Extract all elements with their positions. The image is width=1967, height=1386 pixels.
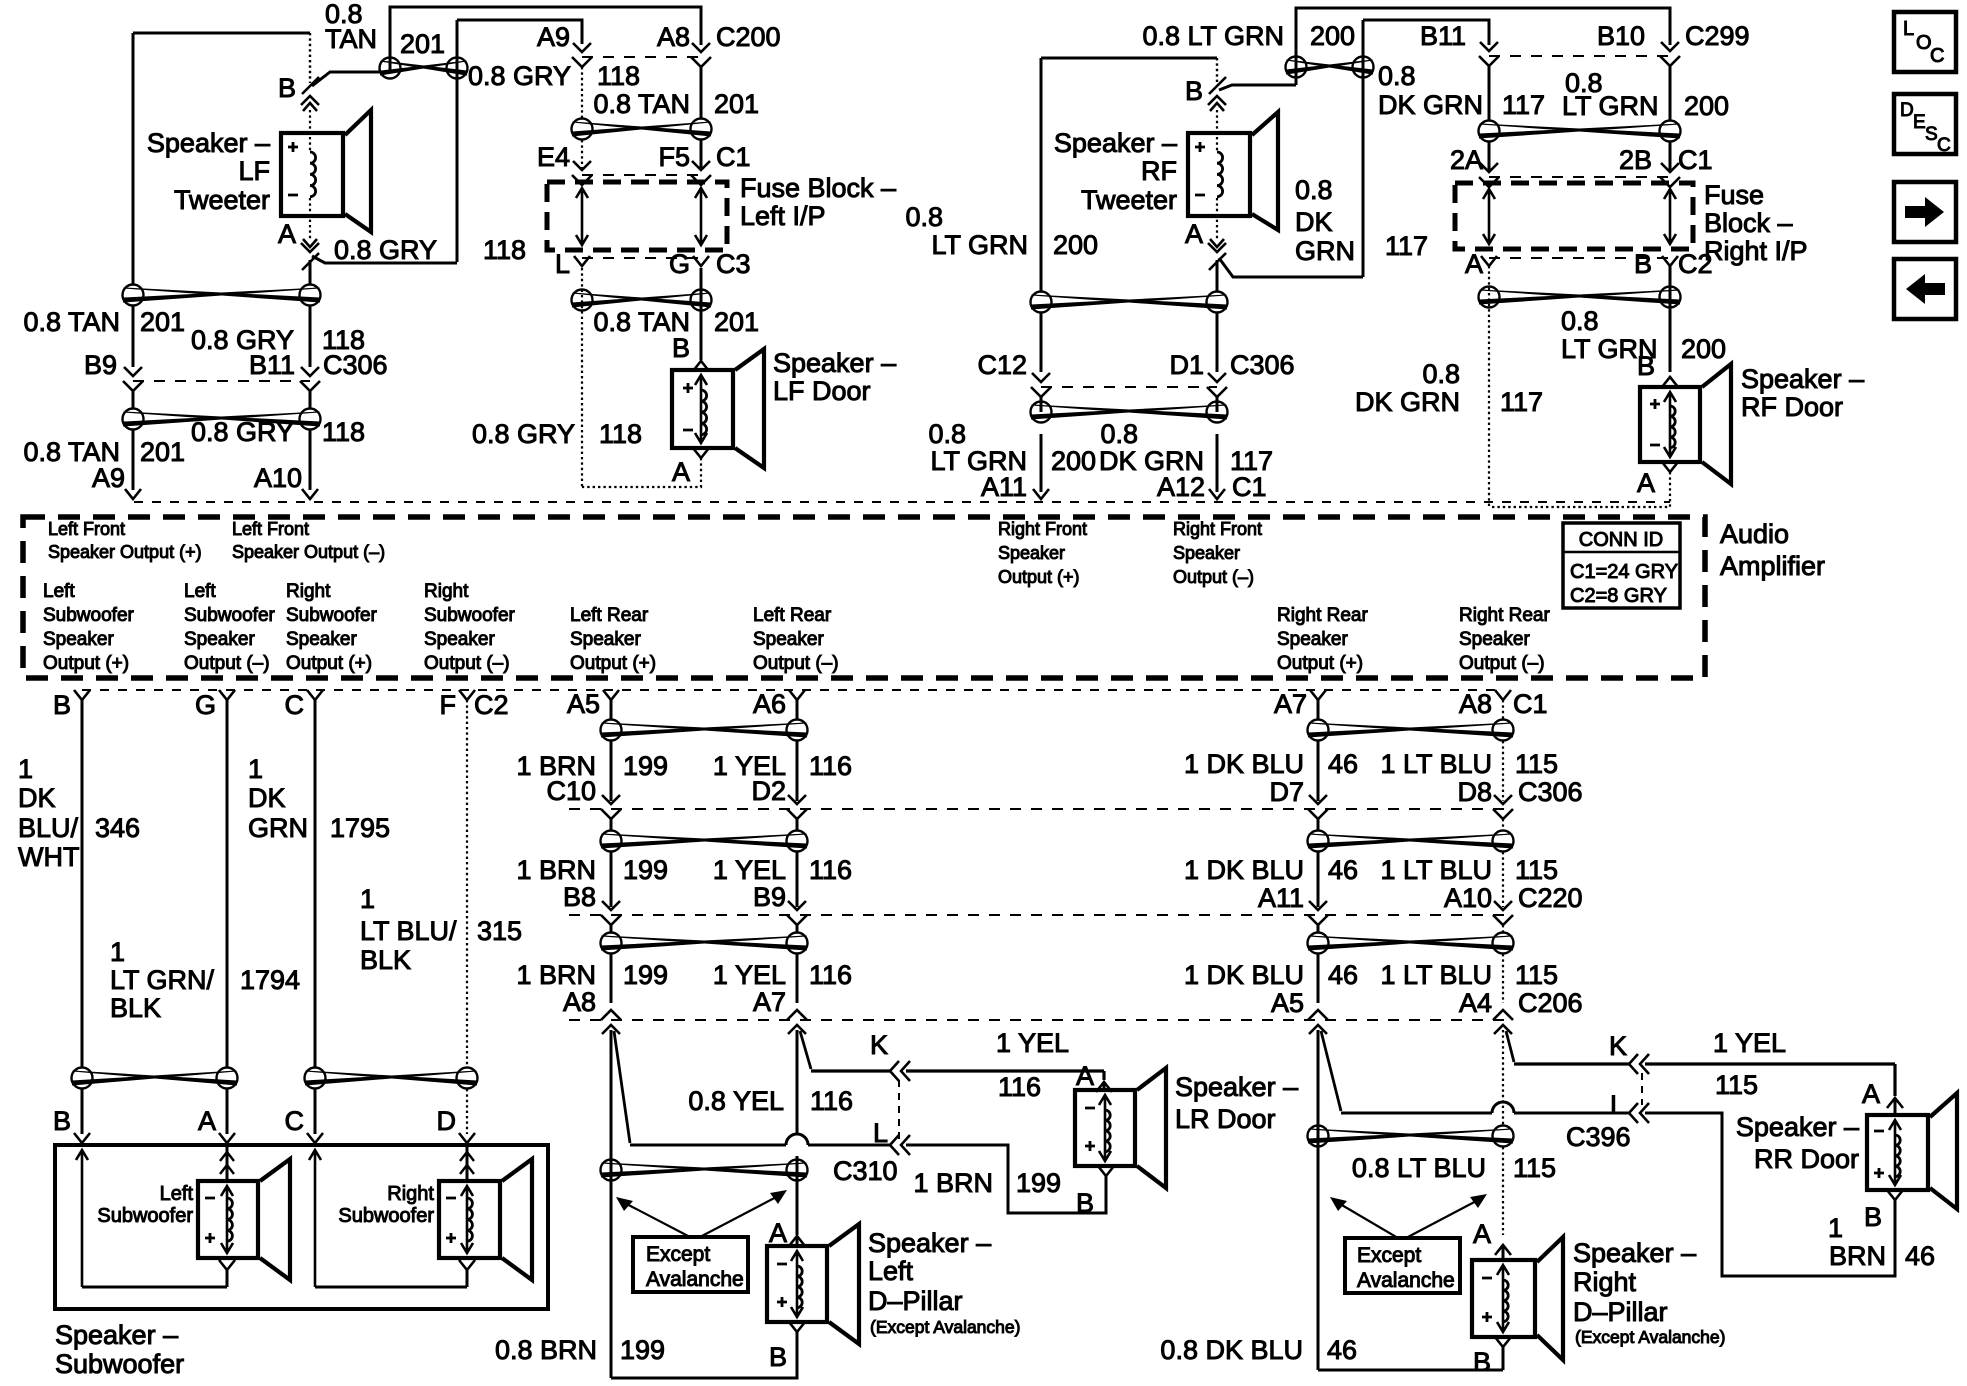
connector C310 half K (890, 1061, 910, 1081)
speaker Right Subwoofer internal arrow (461, 1186, 473, 1253)
svg-text:B: B (672, 333, 690, 363)
svg-text:B8: B8 (563, 882, 596, 912)
CONN ID table (1563, 523, 1680, 608)
svg-text:Speaker: Speaker (43, 629, 114, 650)
connector C306 row (top-right) dashed (1041, 386, 1217, 388)
svg-text:Speaker: Speaker (753, 629, 824, 650)
svg-text:199: 199 (623, 855, 668, 885)
label pin C2 (474, 690, 509, 720)
svg-text:200: 200 (1310, 21, 1355, 51)
svg-text:B: B (769, 1342, 787, 1372)
svg-text:Output (–): Output (–) (424, 653, 510, 674)
speaker RF Door internal arrow (1664, 392, 1676, 457)
connector chevrons D7 (1308, 795, 1328, 819)
label Right Subwoofer (338, 1183, 434, 1227)
label A11 A12 C1 (981, 472, 1267, 502)
wire loop top 133-310 (133, 32, 310, 35)
Except Avalanche box left (633, 1237, 748, 1292)
svg-text:C2=8 GRY: C2=8 GRY (1570, 585, 1667, 607)
label 1 LT BLU 115 row2 (1380, 855, 1558, 885)
fuse block left internal arrow 2 (695, 188, 707, 245)
connector C310 dashed link (898, 1080, 900, 1140)
svg-text:Left Front: Left Front (232, 519, 309, 539)
node A label (RF tweeter) (1185, 219, 1203, 249)
wire x=315 to box (314, 1089, 317, 1134)
label 115 (right K) (1715, 1070, 1758, 1100)
amp pin fork A5 (603, 690, 619, 700)
fuse block left internal arrow 1 (576, 188, 588, 245)
svg-text:RR Door: RR Door (1754, 1144, 1859, 1174)
twisted pair RR row1 (1308, 720, 1514, 741)
speaker Left Subwoofer coil (227, 1198, 232, 1241)
svg-text:1: 1 (360, 884, 375, 914)
branch diagonal A5 to L wire right (1321, 1031, 1341, 1111)
svg-text:Avalanche: Avalanche (1357, 1269, 1455, 1292)
speaker Left Subwoofer pin fork bottom (219, 1260, 235, 1287)
svg-text:A6: A6 (753, 689, 786, 719)
svg-text:A9: A9 (92, 463, 125, 493)
svg-text:B9: B9 (753, 882, 786, 912)
speaker Right D-Pillar pin fork B (1495, 1337, 1511, 1370)
fuse block right internal arrow 2 (1664, 189, 1676, 244)
svg-text:WHT: WHT (18, 842, 79, 872)
svg-text:Tweeter: Tweeter (1081, 185, 1177, 215)
wire BRN x=611 seg3 (610, 925, 613, 1003)
label 0.8 LT GRN 200 (left of loop) (905, 202, 1098, 260)
wire YEL x=797 seg3 (796, 925, 799, 1003)
speaker LR Door (1075, 1068, 1166, 1188)
speaker Right Subwoofer pin fork bottom (459, 1260, 475, 1287)
label Speaker - RF Door (1741, 364, 1864, 422)
connector C306 chevrons B11 (300, 367, 320, 391)
connector C299 dashed line (1489, 55, 1670, 57)
svg-text:1 BRN: 1 BRN (516, 960, 596, 990)
svg-text:A11: A11 (1258, 883, 1304, 913)
svg-text:118: 118 (483, 235, 526, 265)
connector C1 chevrons 2A (1479, 163, 1499, 187)
node A label (LF tweeter) (278, 219, 296, 249)
connector chevrons A11b (1308, 901, 1328, 925)
label Speaker - LF Door (773, 348, 896, 406)
svg-text:Subwoofer: Subwoofer (424, 605, 516, 626)
label 0.8 GRY 118 (lower) (191, 417, 365, 447)
svg-text:118: 118 (322, 417, 365, 447)
svg-text:Speaker: Speaker (424, 629, 495, 650)
svg-text:Subwoofer: Subwoofer (55, 1349, 184, 1379)
svg-text:115: 115 (1515, 855, 1558, 885)
speaker RF tweeter internal arrow (dotted) (1210, 103, 1224, 247)
connector C396 half K (1629, 1054, 1649, 1074)
amp label Right Front Speaker Output (-) (1173, 519, 1262, 587)
connector at A (RF tweeter) (1208, 243, 1226, 270)
connector C299 chevrons B10 (1660, 42, 1680, 66)
svg-text:C1: C1 (1678, 145, 1713, 175)
label 201 (top) (400, 29, 445, 59)
svg-text:Right: Right (387, 1183, 434, 1205)
fuse block right I/P box (1455, 183, 1693, 249)
svg-text:0.8 LT GRN: 0.8 LT GRN (1142, 21, 1284, 51)
svg-text:201: 201 (140, 307, 185, 337)
label L (873, 1118, 888, 1148)
svg-text:Block –: Block – (1704, 208, 1793, 238)
wire DK GRN 1795 x=315 (314, 700, 317, 1067)
label pin G (195, 690, 216, 720)
connector at A (LF tweeter) (301, 243, 319, 270)
twisted pair symbol above LF door (572, 290, 712, 311)
svg-text:A: A (1473, 1219, 1491, 1249)
svg-text:Except: Except (1357, 1244, 1421, 1267)
svg-text:Speaker –: Speaker – (1175, 1072, 1298, 1102)
connector C1 row right dashed (1489, 176, 1670, 178)
connector C200 chevrons A9 (572, 43, 592, 67)
label 1 YEL (K wire) (996, 1028, 1069, 1058)
label 1 YEL 116 row2 (713, 855, 852, 885)
wire LT BLU x=1503 down (dotted) (1502, 1030, 1504, 1235)
svg-text:B11: B11 (249, 350, 295, 380)
label K (870, 1030, 888, 1060)
svg-text:Speaker –: Speaker – (868, 1228, 991, 1258)
svg-text:C2: C2 (1678, 249, 1713, 279)
label 0.8 DK BLU 46 (bottom) (1160, 1335, 1357, 1365)
label 2A 2B C1 (1450, 145, 1713, 175)
icon box arrow right (1894, 182, 1956, 242)
svg-text:200: 200 (1051, 446, 1096, 476)
node B label (RF tweeter) (1185, 76, 1203, 106)
svg-text:Speaker: Speaker (184, 629, 255, 650)
svg-text:200: 200 (1684, 91, 1729, 121)
svg-text:A5: A5 (567, 689, 600, 719)
audio amplifier dashed box (23, 517, 1705, 678)
svg-text:Speaker: Speaker (570, 629, 641, 650)
svg-text:200: 200 (1053, 230, 1098, 260)
amp label Left Subwoofer Speaker Output (+) (43, 581, 135, 674)
svg-text:Output (–): Output (–) (1173, 567, 1254, 587)
svg-text:B: B (1473, 1347, 1491, 1377)
wire BRN x=611 down to D-pillar loop (610, 1030, 613, 1378)
svg-text:Left I/P: Left I/P (740, 201, 826, 231)
amp pin fork A6 (789, 690, 805, 700)
subwoofer internal wire B with up arrow (76, 1150, 88, 1287)
svg-text:C1: C1 (1232, 472, 1267, 502)
speaker RR Door internal arrow (1889, 1120, 1901, 1185)
svg-text:A: A (769, 1218, 787, 1248)
connector C396 half L (1629, 1103, 1649, 1123)
svg-text:1 DK BLU: 1 DK BLU (1184, 960, 1304, 990)
speaker Left Subwoofer (198, 1159, 290, 1280)
svg-text:201: 201 (400, 29, 445, 59)
speaker RR Door (1867, 1093, 1957, 1209)
speaker subwoofer enclosure box (55, 1145, 548, 1309)
speaker LF Door internal arrow (695, 375, 707, 443)
label 0.8 DK GRN 117 (beside tweeter) (1295, 175, 1428, 266)
svg-text:C396: C396 (1566, 1122, 1631, 1152)
wire K right 1 YEL 115 (1514, 1064, 1895, 1096)
svg-text:117: 117 (1385, 231, 1428, 261)
svg-text:Audio: Audio (1720, 519, 1789, 549)
svg-text:116: 116 (998, 1072, 1041, 1102)
svg-text:315: 315 (477, 916, 522, 946)
svg-text:116: 116 (809, 960, 852, 990)
svg-text:A10: A10 (1444, 883, 1492, 913)
svg-text:L: L (1903, 18, 1914, 40)
speaker RF Door pin fork B (1662, 377, 1678, 387)
svg-text:346: 346 (95, 813, 140, 843)
label 116 (K wire) (998, 1072, 1041, 1102)
label A (LR door) (1076, 1061, 1094, 1091)
svg-text:D: D (437, 1106, 457, 1136)
twisted pair LR row2 (601, 831, 808, 852)
svg-text:B: B (1185, 76, 1203, 106)
speaker RF Door (1640, 364, 1731, 484)
connector chevrons A7 (up) (787, 1010, 807, 1034)
svg-text:A8: A8 (563, 987, 596, 1017)
label A9 (amp pin) (92, 463, 125, 493)
twisted pair LR pair bottom (601, 1160, 808, 1181)
connector C306 bottom row dashed (569, 808, 1510, 810)
amp pin fork C (307, 690, 323, 700)
subwoofer internal wire C with up arrow (309, 1150, 321, 1287)
svg-text:Output (–): Output (–) (184, 653, 270, 674)
amp connector interface dashed (top) (134, 501, 1670, 503)
label 1 LT BLU/ BLK (360, 884, 457, 975)
svg-text:C206: C206 (1518, 988, 1583, 1018)
svg-text:0.8 LT BLU: 0.8 LT BLU (1352, 1153, 1486, 1183)
connector C310 half L (890, 1135, 910, 1155)
svg-text:199: 199 (623, 751, 668, 781)
svg-text:Output (+): Output (+) (43, 653, 129, 674)
svg-text:C1: C1 (1513, 689, 1548, 719)
svg-text:LT GRN/: LT GRN/ (110, 965, 215, 995)
wire loop left leg (0.8 TAN 201) x=133 (132, 33, 135, 490)
svg-text:D7: D7 (1269, 777, 1304, 807)
svg-text:Speaker –: Speaker – (1054, 128, 1177, 158)
svg-text:Speaker: Speaker (998, 543, 1065, 563)
svg-text:GRN: GRN (248, 813, 308, 843)
wire GRY vertical x=457 (456, 20, 459, 262)
wire 201 x=701 down (700, 268, 703, 360)
speaker Right D-Pillar pin fork A (1495, 1245, 1511, 1260)
amp pin fork A10 (302, 489, 318, 499)
svg-text:C: C (285, 690, 305, 720)
svg-text:A: A (198, 1106, 216, 1136)
svg-text:D2: D2 (751, 776, 786, 806)
label C12 D1 C306 (977, 350, 1294, 380)
svg-text:C10: C10 (546, 776, 596, 806)
amp pin fork A12 (1209, 489, 1225, 499)
svg-text:Speaker: Speaker (1277, 629, 1348, 650)
svg-text:0.8 BRN: 0.8 BRN (495, 1335, 597, 1365)
svg-text:C299: C299 (1685, 21, 1750, 51)
label K right (1609, 1031, 1627, 1061)
connector C306 chevrons B9 (123, 367, 143, 391)
svg-text:A9: A9 (537, 22, 570, 52)
connector chevrons A10 (1493, 901, 1513, 925)
wire K 1 YEL 116 horizontal (811, 1071, 1104, 1080)
svg-text:BRN: BRN (1829, 1241, 1886, 1271)
svg-text:Left Rear: Left Rear (570, 605, 649, 626)
connector chevrons B9 (787, 901, 807, 925)
svg-text:C2: C2 (474, 690, 509, 720)
twisted pair RR row2 (1308, 831, 1514, 852)
label Speaker - Right D-Pillar (1573, 1238, 1725, 1347)
svg-text:Speaker –: Speaker – (147, 128, 270, 158)
svg-text:Speaker: Speaker (1459, 629, 1530, 650)
speaker LR Door pin fork A (1096, 1082, 1112, 1092)
connector C200 dashed line (582, 56, 701, 58)
speaker LR Door coil (1105, 1110, 1110, 1152)
svg-text:0.8 GRY: 0.8 GRY (334, 235, 437, 265)
wire LT GRN/BLK 1794 x=227 (226, 700, 229, 1067)
svg-text:1 YEL: 1 YEL (996, 1028, 1069, 1058)
wire YEL x=797 seg2 (796, 819, 799, 907)
speaker RR Door pin fork A (1887, 1098, 1903, 1115)
svg-text:B: B (278, 73, 296, 103)
svg-text:Speaker Output (–): Speaker Output (–) (232, 542, 385, 562)
svg-text:0.8: 0.8 (1422, 359, 1460, 389)
label 315 (477, 916, 522, 946)
svg-text:A: A (1862, 1079, 1880, 1109)
twisted pair symbol (TAN/GRY pair) lower (123, 409, 321, 430)
speaker Right D-Pillar internal arrow (1497, 1265, 1509, 1332)
arrow except avalanche left 2 (700, 1190, 787, 1237)
svg-text:Right: Right (1573, 1267, 1637, 1297)
twisted pair symbol (TAN/GRY pair) upper (123, 285, 321, 306)
svg-text:A8: A8 (1459, 689, 1492, 719)
svg-text:Subwoofer: Subwoofer (97, 1205, 193, 1227)
connector C2 dashed row (1489, 257, 1670, 259)
label E4 F5 C1 (537, 142, 751, 172)
arrow except avalanche right 1 (1330, 1197, 1398, 1238)
wire BRN x=611 seg2 (610, 819, 613, 907)
subwoofer internal wire A upper (220, 1145, 234, 1181)
svg-text:115: 115 (1515, 749, 1558, 779)
svg-text:0.8: 0.8 (1100, 419, 1138, 449)
connector chevrons D2 (787, 795, 807, 819)
label 0.8 / 0.8 row (928, 419, 1138, 449)
speaker RR Door coil (1895, 1135, 1900, 1177)
svg-text:46: 46 (1327, 1335, 1357, 1365)
label Speaker - Left D-Pillar (868, 1228, 1020, 1337)
connector C3 fork L (574, 256, 590, 266)
speaker LF tweeter (281, 110, 371, 232)
connector C396 dashed link (1641, 1073, 1643, 1105)
svg-text:E: E (1913, 112, 1926, 133)
svg-text:201: 201 (714, 89, 759, 119)
label pin C1b (1513, 689, 1548, 719)
wire DK BLU/WHT 346 x=82 (81, 700, 84, 1067)
label 1 BRN 46 (1828, 1213, 1935, 1271)
speaker Left D-Pillar internal arrow (791, 1251, 803, 1317)
svg-text:Fuse: Fuse (1704, 180, 1764, 210)
wire corner DK GRN to B11 (1363, 20, 1489, 45)
svg-text:1: 1 (18, 754, 33, 784)
wire YEL x=797 down (796, 1030, 799, 1235)
subwoofer pin fork B (74, 1133, 90, 1143)
svg-text:A10: A10 (254, 463, 302, 493)
svg-text:Output (+): Output (+) (570, 653, 656, 674)
svg-text:116: 116 (810, 1086, 853, 1116)
wire x=1503 seg3 (dotted) (1502, 925, 1504, 1003)
twisted pair LR row1 (601, 720, 808, 741)
svg-text:Output (+): Output (+) (998, 567, 1080, 587)
connector C2 fork A (1481, 256, 1497, 266)
wire x=1503 seg2 (dotted) (1502, 819, 1504, 907)
node B label (LF door) (672, 333, 690, 363)
twisted pair LR row3 (601, 933, 808, 954)
svg-text:46: 46 (1328, 855, 1358, 885)
svg-text:1 BRN: 1 BRN (913, 1168, 993, 1198)
svg-text:RF Door: RF Door (1741, 392, 1843, 422)
icon box DESC (1894, 94, 1956, 156)
svg-text:C: C (285, 1106, 305, 1136)
svg-text:Output (+): Output (+) (1277, 653, 1363, 674)
connector C3 dashed row (582, 257, 701, 259)
connector C306 chevrons C12 (1031, 373, 1051, 397)
svg-text:A: A (1185, 219, 1203, 249)
svg-text:Right: Right (424, 581, 469, 602)
svg-text:L: L (1610, 1090, 1625, 1120)
svg-text:1: 1 (248, 754, 263, 784)
label 0.8 TAN (top) (325, 0, 377, 54)
twisted pair symbol subwoofer right pair (305, 1068, 478, 1089)
svg-text:TAN: TAN (325, 24, 377, 54)
svg-text:C306: C306 (1230, 350, 1295, 380)
svg-text:Subwoofer: Subwoofer (286, 605, 378, 626)
connector C1 chevrons F5 (691, 161, 711, 185)
wire 118 x=583 down (dotted) (581, 268, 583, 487)
svg-text:1 DK BLU: 1 DK BLU (1184, 749, 1304, 779)
wire L continue to LR door B (906, 1145, 1106, 1213)
connector chevrons A8 (up) (601, 1010, 621, 1034)
svg-text:GRN: GRN (1295, 236, 1355, 266)
label A B C2 (1465, 249, 1713, 279)
amp pin fork A8b (1495, 690, 1511, 700)
svg-text:1 LT BLU: 1 LT BLU (1380, 855, 1492, 885)
label 1 LT GRN/ BLK (110, 937, 215, 1023)
speaker LF Door coil (701, 390, 707, 435)
connector chevrons A5b (up) (1308, 1010, 1328, 1034)
svg-text:Right: Right (286, 581, 331, 602)
svg-text:118: 118 (597, 61, 640, 91)
svg-text:1: 1 (110, 937, 125, 967)
svg-text:1 YEL: 1 YEL (1713, 1028, 1786, 1058)
label 200 (top) (1310, 21, 1355, 51)
wire tweeter column x=1217 down (1216, 260, 1219, 492)
speaker Right Subwoofer coil (467, 1198, 472, 1241)
wire RF door bottom loop (dotted) (1489, 472, 1670, 507)
speaker RF tweeter coil (1217, 152, 1223, 197)
twisted pair symbol (tweeter pair) lower right (1031, 402, 1228, 423)
svg-text:1 DK BLU: 1 DK BLU (1184, 855, 1304, 885)
wire x=1318 seg3 (1317, 925, 1320, 1003)
icon box arrow left (1894, 259, 1956, 319)
twisted pair symbol top-right (1286, 57, 1374, 78)
speaker Right Subwoofer (439, 1159, 532, 1280)
label Left Subwoofer (97, 1183, 193, 1227)
svg-text:BLK: BLK (110, 993, 161, 1023)
svg-text:G: G (669, 249, 690, 279)
svg-text:B10: B10 (1597, 21, 1645, 51)
node A label (RF door) (1637, 468, 1655, 498)
label 1 BRN 199 row1 (516, 751, 668, 781)
svg-text:A: A (1076, 1061, 1094, 1091)
svg-text:Speaker: Speaker (286, 629, 357, 650)
label 0.8 TAN 201 (593, 89, 759, 119)
svg-text:A7: A7 (753, 987, 786, 1017)
svg-text:A: A (672, 457, 690, 487)
svg-text:46: 46 (1328, 960, 1358, 990)
amp pin fork A7b (1310, 690, 1326, 700)
